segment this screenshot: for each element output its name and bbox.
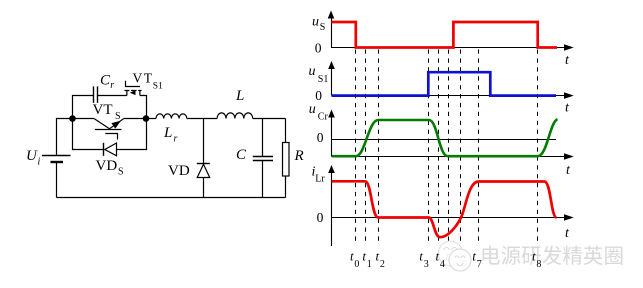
timing dashed line t3 bbox=[428, 50, 430, 244]
u_S1 time axis bbox=[332, 95, 566, 97]
u_Cr plot vertical axis bbox=[331, 111, 333, 157]
waveform i_Lr (red) bbox=[332, 181, 557, 237]
label t8 bbox=[532, 249, 541, 271]
svg-text:u: u bbox=[312, 15, 319, 30]
wire: node A to VT_S bbox=[73, 118, 95, 120]
wire: node A down to VD_S branch bbox=[73, 119, 104, 150]
wire: VD_S to right vertical, up to node B bbox=[117, 119, 147, 150]
svg-text:0: 0 bbox=[317, 130, 324, 145]
svg-text:C: C bbox=[236, 147, 247, 163]
svg-text:Cr: Cr bbox=[318, 112, 329, 123]
u_S vertical axis arrowhead bbox=[328, 11, 335, 19]
svg-text:t: t bbox=[362, 249, 366, 264]
svg-text:S1: S1 bbox=[318, 74, 329, 85]
label u_S1 bbox=[309, 64, 329, 85]
inductor L bbox=[217, 113, 253, 119]
capacitor C plates bbox=[253, 157, 273, 161]
u_Cr time axis bbox=[332, 156, 566, 158]
label VT_S bbox=[93, 102, 121, 122]
svg-text:1: 1 bbox=[367, 259, 372, 270]
u_S1 vertical axis arrowhead bbox=[328, 61, 335, 69]
i_Lr vertical axis arrowhead bbox=[328, 165, 335, 173]
svg-text:u: u bbox=[309, 64, 316, 79]
svg-text:4: 4 bbox=[440, 259, 445, 270]
svg-text:t: t bbox=[566, 163, 571, 178]
wire: Lr to L bbox=[187, 118, 217, 120]
transistor VT_S emitter arrow bbox=[111, 121, 121, 129]
watermark logo circle 2 bbox=[449, 249, 471, 271]
svg-text:S: S bbox=[320, 22, 326, 33]
timing dashed line t8 bbox=[537, 50, 539, 244]
label t0 bbox=[350, 249, 359, 271]
label t4 bbox=[436, 249, 445, 271]
watermark logo face marks bbox=[444, 248, 465, 266]
capacitor Cr plates bbox=[94, 86, 98, 103]
svg-text:S1: S1 bbox=[153, 82, 163, 92]
wire: R branch bottom bbox=[285, 176, 287, 198]
u_Cr time axis arrowhead bbox=[564, 153, 574, 160]
u_S1 time axis arrowhead bbox=[564, 92, 574, 99]
svg-text:t: t bbox=[565, 226, 570, 241]
svg-text:t: t bbox=[565, 101, 570, 116]
diode VD triangle bbox=[197, 164, 210, 177]
svg-text:VT: VT bbox=[93, 102, 113, 118]
label Cr bbox=[100, 72, 114, 91]
wire: bottom rail bbox=[57, 197, 286, 199]
battery U_i long plate bbox=[42, 155, 71, 157]
svg-text:L: L bbox=[235, 88, 244, 104]
svg-text:0: 0 bbox=[317, 210, 324, 225]
wire: VT_S right to node B bbox=[124, 118, 146, 120]
timing dashed line t2 bbox=[378, 50, 380, 244]
svg-text:u: u bbox=[309, 102, 316, 117]
label t2 bbox=[376, 249, 385, 271]
battery U_i short plate bbox=[51, 161, 64, 163]
label t3 bbox=[419, 249, 428, 271]
svg-text:电源研发精英圈: 电源研发精英圈 bbox=[480, 245, 624, 268]
u_S time axis bbox=[332, 47, 566, 49]
inductor Lr bbox=[156, 114, 187, 119]
wire: battery bottom lead down bbox=[56, 162, 58, 198]
svg-text:7: 7 bbox=[477, 259, 482, 270]
svg-text:r: r bbox=[174, 134, 178, 145]
transistor VT_S1 contact bars bbox=[125, 90, 142, 92]
svg-text:U: U bbox=[26, 148, 38, 164]
diode VD_S triangle bbox=[105, 143, 117, 156]
wire: Cr to VT_S1 bbox=[98, 95, 127, 97]
label U_i bbox=[26, 148, 41, 168]
diode VD_S cathode bar bbox=[103, 143, 105, 156]
svg-text:Lr: Lr bbox=[315, 174, 325, 185]
wire: VD branch bottom bbox=[203, 178, 205, 198]
svg-text:VD: VD bbox=[96, 158, 118, 174]
wire: R branch top bbox=[285, 119, 287, 143]
label t1 bbox=[362, 249, 371, 271]
transistor VT_S1 body arrow bbox=[130, 90, 136, 95]
u_S1 plot vertical axis bbox=[331, 63, 333, 96]
watermark logo circle 1 bbox=[438, 241, 463, 266]
transistor VT_S channel V bbox=[94, 119, 123, 129]
waveform u_S (red) bbox=[332, 22, 558, 48]
svg-text:0: 0 bbox=[315, 41, 322, 56]
svg-text:0: 0 bbox=[315, 88, 322, 103]
label VT_S1 bbox=[133, 71, 164, 92]
transistor VT_S bar bbox=[95, 129, 122, 131]
wire: VD branch top bbox=[203, 119, 205, 164]
svg-text:3: 3 bbox=[424, 259, 429, 270]
i_Lr plot vertical axis bbox=[331, 166, 333, 246]
label VD_S bbox=[96, 158, 124, 178]
svg-text:t: t bbox=[565, 53, 570, 68]
timing dashed line t4 bbox=[438, 50, 440, 244]
label t7 bbox=[472, 249, 482, 271]
transistor VT_S gate lead bbox=[105, 134, 117, 140]
label i_Lr bbox=[312, 164, 326, 184]
svg-text:t: t bbox=[472, 249, 476, 264]
label Lr bbox=[163, 125, 178, 145]
resistor R body bbox=[283, 143, 290, 177]
transistor VT_S1 (small MOSFET) gate lead bbox=[126, 81, 141, 87]
timing dashed line t5 bbox=[448, 50, 450, 244]
transistor VT_S1 source/drain stubs bbox=[127, 91, 140, 96]
svg-text:t: t bbox=[532, 249, 536, 264]
svg-text:8: 8 bbox=[536, 259, 541, 270]
svg-text:t: t bbox=[419, 249, 423, 264]
wire: node B to Lr bbox=[146, 118, 156, 120]
i_Lr time axis arrowhead bbox=[564, 214, 574, 221]
timing dashed line t0 bbox=[355, 50, 357, 244]
timing dashed line t7 bbox=[478, 50, 480, 244]
svg-text:i: i bbox=[38, 157, 41, 168]
u_S time axis arrowhead bbox=[564, 44, 574, 51]
label t6 (hidden under watermark) bbox=[457, 249, 467, 271]
svg-text:r: r bbox=[110, 80, 114, 91]
svg-text:VD: VD bbox=[168, 163, 190, 179]
svg-text:L: L bbox=[163, 125, 172, 141]
node A junction dot bbox=[69, 115, 76, 122]
u_S plot vertical axis bbox=[331, 13, 333, 48]
wire: VT_S1 right lead down to node B bbox=[140, 96, 147, 119]
u_Cr zero reference line bbox=[332, 139, 557, 141]
wire: C branch top bbox=[262, 119, 264, 157]
wire: C branch bottom bbox=[262, 161, 264, 198]
svg-text:0: 0 bbox=[354, 259, 359, 270]
svg-text:R: R bbox=[294, 148, 304, 164]
wire: node A up to snubber branch bbox=[73, 96, 94, 119]
diode VD cathode bar bbox=[197, 163, 210, 165]
svg-text:S: S bbox=[118, 166, 124, 177]
node B junction dot bbox=[143, 115, 150, 122]
wire: L to right corner bbox=[253, 118, 286, 120]
u_Cr vertical axis arrowhead bbox=[328, 110, 335, 118]
label t5 (hidden under watermark) bbox=[446, 249, 455, 271]
timing dashed line t1 bbox=[365, 50, 367, 244]
i_Lr time axis bbox=[332, 217, 566, 219]
waveform u_Cr (green) bbox=[332, 119, 558, 156]
label u_Cr bbox=[309, 102, 329, 123]
svg-text:S: S bbox=[115, 111, 121, 122]
svg-text:t: t bbox=[350, 249, 354, 264]
svg-text:2: 2 bbox=[380, 259, 385, 270]
label u_S bbox=[312, 15, 325, 34]
wire: battery top lead up and right to node A bbox=[57, 119, 73, 156]
svg-text:t: t bbox=[436, 249, 440, 264]
svg-text:VT: VT bbox=[133, 71, 153, 86]
timing dashed line t6 bbox=[460, 50, 462, 244]
svg-text:t: t bbox=[376, 249, 380, 264]
waveform u_S1 (blue) bbox=[332, 72, 557, 95]
